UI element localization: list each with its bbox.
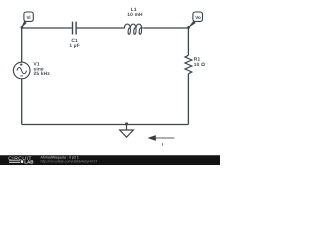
- svg-text:Vo: Vo: [195, 15, 201, 20]
- svg-text:1 µF: 1 µF: [69, 43, 80, 49]
- svg-text:10 Ω: 10 Ω: [194, 62, 205, 68]
- svg-text:R1: R1: [194, 56, 201, 62]
- wire left lower (V1 minus terminal to bottom rail): [21, 79, 23, 125]
- wire left upper (Vi corner to V1 plus terminal): [21, 28, 23, 62]
- node Vi flag: [21, 12, 34, 29]
- voltage source V1: [13, 62, 30, 79]
- wire top right (L1 to node Vo): [144, 27, 188, 29]
- svg-text:http://circuitlab.com/c6lkb4s2: http://circuitlab.com/c6lkb4s2yr67z7: [41, 160, 98, 164]
- junction dot: [125, 122, 128, 125]
- wire right upper (Vo corner to R1): [187, 28, 189, 55]
- svg-text:LAB: LAB: [24, 159, 34, 164]
- current arrow I: [148, 135, 175, 147]
- resistor R1: [185, 55, 192, 73]
- wire top left (node Vi to C1): [22, 27, 72, 29]
- wire right lower (R1 to bottom rail): [187, 74, 189, 125]
- svg-text:I: I: [162, 142, 163, 147]
- ground: [120, 125, 134, 138]
- svg-text:Vi: Vi: [26, 15, 30, 20]
- svg-text:25 kHz: 25 kHz: [34, 71, 51, 77]
- node Vo flag: [187, 12, 202, 29]
- inductor L1: [123, 24, 144, 34]
- svg-text:10 mH: 10 mH: [127, 12, 143, 18]
- capacitor C1: [73, 22, 77, 35]
- CircuitLab logo: [8, 156, 34, 165]
- wire bottom rail: [22, 124, 189, 126]
- wire top middle (C1 to L1): [77, 27, 124, 29]
- watermark bar: [0, 155, 220, 165]
